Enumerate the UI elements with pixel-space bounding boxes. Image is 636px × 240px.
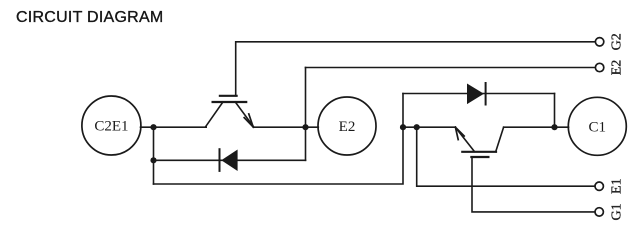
IGBT Q1 bbox=[455, 127, 503, 157]
node junction at E1 tap bbox=[414, 124, 420, 130]
wire vertical C2E1 node down bbox=[153, 127, 155, 184]
svg-text:E2: E2 bbox=[339, 119, 356, 135]
diode D2 across Q2 bbox=[154, 149, 306, 171]
svg-text:C1: C1 bbox=[589, 119, 607, 135]
wire gate lead G1 bbox=[472, 157, 595, 212]
wire rail E2 bbox=[306, 67, 596, 69]
node junction at Q1 emitter bbox=[400, 124, 406, 130]
svg-text:C2E1: C2E1 bbox=[94, 119, 128, 135]
terminal pin E1 bbox=[595, 182, 603, 190]
wire vertical E2 node bbox=[305, 68, 307, 161]
wire C2E1 to Q2 collector bbox=[141, 126, 207, 128]
terminal circle C1 bbox=[568, 97, 626, 155]
diode D1 across Q1 bbox=[403, 83, 555, 105]
wire Q1 collector to C1 bbox=[504, 126, 569, 128]
terminal pin G1 bbox=[595, 208, 603, 216]
wire E1 to terminal bbox=[417, 127, 595, 186]
node junction at E2 bbox=[302, 124, 308, 130]
terminal pin E2 bbox=[595, 63, 603, 71]
wire vertical C1 node to diode rail bbox=[554, 94, 556, 128]
IGBT Q2 bbox=[206, 96, 254, 127]
node junction at C2E1 wire bbox=[150, 124, 156, 130]
wire gate lead G2 bbox=[236, 42, 596, 96]
terminal pin G2 bbox=[595, 38, 603, 46]
wire Q1 emitter segment bbox=[403, 126, 455, 128]
svg-text:CIRCUIT DIAGRAM: CIRCUIT DIAGRAM bbox=[16, 9, 163, 26]
svg-text:E1: E1 bbox=[610, 178, 625, 194]
wire Q2 emitter to E2 bbox=[254, 126, 318, 128]
svg-text:G2: G2 bbox=[610, 33, 625, 50]
terminal circle E2 bbox=[318, 97, 376, 155]
terminal circle C2E1 bbox=[82, 96, 141, 155]
svg-text:G1: G1 bbox=[610, 203, 625, 220]
node junction at C1 bbox=[551, 124, 557, 130]
svg-text:E2: E2 bbox=[610, 60, 625, 76]
node junction at diode D2 wire bbox=[150, 157, 156, 163]
wire bottom rail E1 to C2E1 bbox=[154, 94, 404, 185]
